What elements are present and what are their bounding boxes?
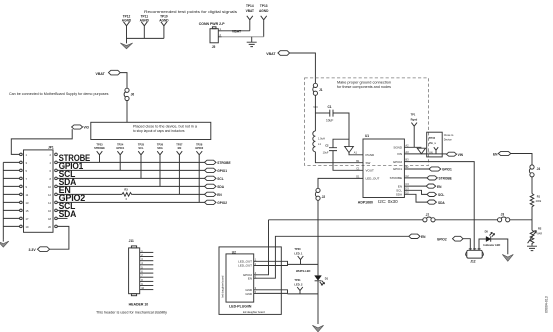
wire SCL pin xyxy=(404,190,427,194)
daughter board outline xyxy=(219,247,281,315)
resistor R3 0 xyxy=(122,188,133,201)
wire R1 to junction xyxy=(531,208,533,230)
svg-text:EN: EN xyxy=(178,146,182,150)
LED D5 indicator xyxy=(483,230,500,247)
svg-text:GPIO1: GPIO1 xyxy=(217,169,227,173)
svg-text:R3: R3 xyxy=(124,188,128,192)
svg-text:SDA: SDA xyxy=(217,185,224,189)
svg-text:EN: EN xyxy=(493,152,498,156)
svg-text:led daughter board: led daughter board xyxy=(221,275,225,297)
test point TP13 AGND xyxy=(259,4,269,37)
svg-text:B2: B2 xyxy=(405,165,409,169)
ground PGND (open triangle) A1 xyxy=(345,146,358,154)
svg-text:EN: EN xyxy=(421,235,426,239)
wire J4 to R1 xyxy=(531,177,533,194)
node GPIO1 flag xyxy=(429,167,452,172)
svg-text:C2: C2 xyxy=(325,144,329,148)
svg-text:C1: C1 xyxy=(328,105,332,109)
header J11 (mechanical) xyxy=(129,239,140,296)
svg-text:CONN PWR 2-P: CONN PWR 2-P xyxy=(199,22,226,26)
svg-text:B3: B3 xyxy=(405,158,409,162)
wire LED_OUT rail (to pot) xyxy=(269,219,423,221)
svg-text:SCL: SCL xyxy=(438,193,444,197)
svg-text:TP25: TP25 xyxy=(138,142,145,146)
svg-text:C2: C2 xyxy=(405,174,409,178)
wire C1 to PGND xyxy=(333,113,349,146)
wire GPIO2 flag to J12 xyxy=(463,239,470,251)
wire stub to ground xyxy=(251,37,253,42)
wire VIN to L1 xyxy=(314,113,316,131)
svg-text:J12: J12 xyxy=(470,259,476,263)
wire C2 top to PGND net xyxy=(333,139,349,148)
svg-text:SDA: SDA xyxy=(59,209,77,219)
ground (earth) below R2 xyxy=(527,246,537,250)
jumper J1 xyxy=(313,83,323,95)
node VIN flag xyxy=(446,152,463,157)
test point TP26 SDA xyxy=(157,142,164,186)
note close to device xyxy=(444,133,454,141)
node GPIO1 flag xyxy=(205,168,228,173)
svg-text:TP13: TP13 xyxy=(260,4,268,8)
wire VIO to JP1 pin1 xyxy=(11,129,72,154)
svg-text:B1: B1 xyxy=(356,159,360,163)
svg-text:This header is used for mechan: This header is used for mechanical stabi… xyxy=(96,311,167,315)
test point TP25 SCL xyxy=(138,142,145,178)
pin 6 xyxy=(254,275,257,279)
wire GPIO2 row (pin 14) xyxy=(57,193,204,203)
wire ground bus xyxy=(2,162,4,240)
svg-text:I2C: 0x30: I2C: 0x30 xyxy=(378,199,398,204)
wire J1 to VIN node xyxy=(313,95,317,113)
svg-text:AGND: AGND xyxy=(140,18,150,22)
svg-text:JP1: JP1 xyxy=(48,146,54,150)
test point TP14 VBAT xyxy=(246,4,254,31)
jumper J4 xyxy=(529,165,540,177)
test point TP1 Rgnd xyxy=(411,112,418,147)
wire GPIO2 pin long run xyxy=(404,162,474,251)
svg-text:09004-013: 09004-013 xyxy=(545,296,549,313)
svg-text:D5: D5 xyxy=(485,230,489,234)
wire U2 GPIO2 pin to rail xyxy=(257,220,269,275)
svg-text:J11: J11 xyxy=(129,239,134,243)
wire VIN node to C1 xyxy=(315,112,329,114)
node SDA flag xyxy=(427,200,446,205)
document number xyxy=(545,296,549,313)
node EN flag (daughter board) xyxy=(409,234,426,239)
svg-text:TP15: TP15 xyxy=(429,136,436,140)
svg-text:Can be connected to MotherBoar: Can be connected to MotherBoard Supply f… xyxy=(9,92,109,96)
pin 1 xyxy=(218,27,221,31)
ground (earth) near J5 xyxy=(247,42,257,46)
node VBAT flag (left) xyxy=(96,70,121,76)
svg-text:LED_2: LED_2 xyxy=(294,282,303,286)
node GPIO2 flag xyxy=(205,200,228,205)
svg-text:VBAT: VBAT xyxy=(266,52,276,56)
wire SCL stub (pin 16) xyxy=(57,201,75,211)
test point TP11 AGND xyxy=(140,15,150,39)
svg-text:STROBE: STROBE xyxy=(94,146,105,150)
svg-text:R1: R1 xyxy=(537,194,541,198)
svg-text:J6: J6 xyxy=(131,92,135,96)
wire VBAT net xyxy=(222,29,250,33)
wire AGND rail xyxy=(127,37,164,39)
connector U2 LED-PLUG/IN xyxy=(226,250,254,308)
jumper J7 xyxy=(423,213,435,222)
ground (arrow) bottom xyxy=(312,325,323,332)
svg-text:10uF: 10uF xyxy=(323,150,329,154)
test point TP27 EN xyxy=(176,142,183,194)
wire J6 to note box xyxy=(126,101,128,123)
svg-text:1.0uH: 1.0uH xyxy=(318,136,325,140)
svg-text:200k: 200k xyxy=(536,199,542,203)
wire STROBE row (pin 4) xyxy=(57,153,204,163)
svg-text:for these components and nodes: for these components and nodes xyxy=(337,85,391,89)
wire EN flag to J4 xyxy=(511,154,532,165)
svg-text:VIN: VIN xyxy=(397,152,402,156)
pin 2 xyxy=(218,33,221,37)
resistor R2 VAR xyxy=(528,227,543,246)
svg-text:VBAT: VBAT xyxy=(96,72,106,76)
node EN flag xyxy=(205,192,223,197)
wire EN row (pin 12) xyxy=(57,185,204,195)
header JP1 xyxy=(24,146,54,233)
jumper J3 xyxy=(498,213,510,222)
svg-text:SDA: SDA xyxy=(396,193,402,197)
node SDA flag xyxy=(205,184,225,189)
wire GPIO1 pin xyxy=(404,168,429,170)
wire J7 to J3 xyxy=(435,219,497,221)
svg-text:Rgnd: Rgnd xyxy=(411,118,418,122)
LED D1 WHITE-LED xyxy=(296,269,329,285)
wire PGND triangle to U1 PGND pin xyxy=(349,153,363,155)
note: motherboard supply xyxy=(9,92,109,96)
wire SGND pin xyxy=(404,146,421,148)
svg-text:LED_OUT: LED_OUT xyxy=(366,177,380,181)
svg-text:Vin_s: Vin_s xyxy=(429,141,436,145)
test point TP28 GPIO2 xyxy=(195,142,203,202)
wire EN flag to U2 EN pin xyxy=(257,236,409,278)
node EN flag (right) xyxy=(493,151,511,156)
capacitor C2 10uF xyxy=(323,144,337,155)
svg-text:AGND: AGND xyxy=(159,18,169,22)
svg-text:VOUT: VOUT xyxy=(366,169,375,173)
pin 1 xyxy=(254,258,257,262)
wire L1 to SW pin xyxy=(315,152,363,163)
svg-text:GPIO1: GPIO1 xyxy=(393,167,403,171)
svg-text:VBAT: VBAT xyxy=(246,9,254,13)
svg-text:to stop layout of caps and ind: to stop layout of caps and inductors xyxy=(133,129,185,133)
svg-text:WHITE-LED: WHITE-LED xyxy=(296,269,311,273)
node SCL flag xyxy=(205,176,224,181)
note box: placed close to the device xyxy=(91,122,211,139)
JP1 pin circles and numbers xyxy=(20,153,58,229)
wire SDA stub (pin 18) xyxy=(57,209,76,219)
svg-text:10uF: 10uF xyxy=(326,118,333,122)
svg-text:C1: C1 xyxy=(356,166,360,170)
svg-text:J2: J2 xyxy=(322,195,326,199)
svg-text:J4: J4 xyxy=(537,167,541,171)
svg-text:AGND: AGND xyxy=(122,18,132,22)
note: recommended test points xyxy=(144,10,237,14)
test point TP31 LED_2 xyxy=(294,278,303,294)
svg-text:SDA: SDA xyxy=(438,201,445,205)
test point TP10 AGND xyxy=(159,15,169,39)
node STROBE flag xyxy=(427,176,452,181)
node GPIO2 flag (J12) xyxy=(437,236,463,241)
svg-text:GPIO2: GPIO2 xyxy=(195,146,203,150)
wire VBAT to J1 xyxy=(290,53,316,83)
svg-text:J3: J3 xyxy=(501,213,505,217)
svg-text:SCL: SCL xyxy=(217,177,223,181)
svg-text:LED-PLUG/IN: LED-PLUG/IN xyxy=(229,305,252,309)
svg-text:J1: J1 xyxy=(319,88,323,92)
jumper J2 xyxy=(315,188,325,200)
svg-text:D1: D1 xyxy=(356,175,360,179)
pin 2 xyxy=(254,262,257,266)
svg-text:GPIO1: GPIO1 xyxy=(442,168,452,172)
svg-text:STROBE: STROBE xyxy=(217,161,230,165)
wire SCL row (pin 8) xyxy=(57,169,204,179)
wire LED_OUT pin to J2 xyxy=(318,178,363,188)
svg-text:SGND: SGND xyxy=(393,146,403,150)
svg-text:R2: R2 xyxy=(538,227,542,231)
svg-text:C3: C3 xyxy=(405,182,409,186)
pin 3 xyxy=(254,286,257,290)
wire VBAT to J6 xyxy=(120,73,127,89)
svg-text:TP27: TP27 xyxy=(176,142,183,146)
ground AGND (arrow) xyxy=(120,43,132,49)
svg-text:VIN: VIN xyxy=(458,153,464,157)
svg-text:Recommended test points for di: Recommended test points for digital sign… xyxy=(144,10,237,14)
node EN flag xyxy=(426,184,442,189)
resistor R1 200k xyxy=(530,194,542,209)
svg-text:led daughter board: led daughter board xyxy=(243,310,265,314)
svg-text:STROBE: STROBE xyxy=(439,177,452,181)
J11 pins 1-10 xyxy=(140,249,154,290)
svg-text:VBAT: VBAT xyxy=(232,29,242,33)
svg-text:STROBE: STROBE xyxy=(390,176,402,180)
svg-text:SCL: SCL xyxy=(138,146,144,150)
wire GND pins merge xyxy=(257,290,318,294)
op-amp U1 ADP1660 xyxy=(358,134,405,205)
wire VIN pin to TP15 xyxy=(404,153,426,155)
node VBAT flag (top) xyxy=(266,51,289,56)
svg-text:GPIO2: GPIO2 xyxy=(217,201,227,205)
svg-text:A3: A3 xyxy=(405,150,409,154)
svg-text:ADP1660: ADP1660 xyxy=(358,201,373,205)
node VIO flag xyxy=(72,125,90,130)
svg-text:HEADER 10: HEADER 10 xyxy=(129,302,149,306)
svg-text:TP31: TP31 xyxy=(294,278,301,282)
svg-text:Device: Device xyxy=(444,137,452,141)
wire pin 20 to 3.3V xyxy=(50,226,69,249)
svg-text:LED_1: LED_1 xyxy=(294,251,303,255)
svg-text:SW: SW xyxy=(366,161,371,165)
ground SGND (open triangle) xyxy=(417,148,425,154)
svg-text:A1: A1 xyxy=(354,150,358,154)
wire D1 cathode to ground xyxy=(317,281,319,324)
svg-text:GPIO2: GPIO2 xyxy=(393,160,403,164)
svg-text:AGND: AGND xyxy=(259,9,269,13)
node 3.3V flag xyxy=(29,247,50,252)
wire C2 bottom to VOUT pin xyxy=(333,151,363,171)
test point TP24 GPIO1 xyxy=(116,142,124,170)
wire pin2 to AGND xyxy=(222,36,264,38)
wire D5 cathode to ground xyxy=(491,239,508,254)
test point TP30 LED_1 xyxy=(294,247,303,265)
ground (arrow) below D5 xyxy=(502,254,513,261)
svg-text:J5: J5 xyxy=(212,45,216,49)
wire GPIO1 row (pin 6) xyxy=(57,161,204,171)
svg-text:TP24: TP24 xyxy=(117,142,124,146)
svg-text:LED_OUT: LED_OUT xyxy=(238,264,252,268)
svg-text:VAR: VAR xyxy=(537,231,542,235)
svg-text:TP28: TP28 xyxy=(196,142,203,146)
svg-text:D1: D1 xyxy=(325,277,329,281)
svg-text:EN: EN xyxy=(248,277,252,281)
jumper J6 xyxy=(124,88,134,100)
svg-text:EN: EN xyxy=(437,185,442,189)
test point TP12 AGND xyxy=(122,15,132,30)
wire J2 down to LED D1 xyxy=(317,200,319,275)
svg-text:3.3V: 3.3V xyxy=(29,248,37,252)
svg-text:GND: GND xyxy=(245,292,253,296)
node STROBE flag xyxy=(205,160,231,165)
wire SDA row (pin 10) xyxy=(57,177,204,187)
svg-text:TP26: TP26 xyxy=(157,142,164,146)
wire JP1 left pins to ground bus xyxy=(3,162,19,226)
note box: make proper ground connection (dashed) xyxy=(305,78,429,166)
svg-text:Indicator LED: Indicator LED xyxy=(483,243,500,247)
svg-text:Close to: Close to xyxy=(444,133,454,137)
svg-text:A2: A2 xyxy=(405,143,409,147)
pin 4 xyxy=(254,271,257,275)
svg-text:TP23: TP23 xyxy=(96,142,103,146)
wire D5 anode to J12 xyxy=(479,239,486,250)
pin 5 xyxy=(254,290,257,294)
wire EN pin xyxy=(404,185,426,187)
ground (arrow) at bus xyxy=(0,240,9,247)
svg-text:GPIO1: GPIO1 xyxy=(116,146,124,150)
svg-text:TP1: TP1 xyxy=(411,112,416,116)
wire J3 to R1/R2 junction xyxy=(510,219,532,221)
svg-text:TP30: TP30 xyxy=(294,247,301,251)
node SCL flag xyxy=(427,192,445,197)
wire STROBE pin xyxy=(404,177,427,179)
svg-text:VIN: VIN xyxy=(313,105,317,109)
connector J5 CONN PWR 2-P xyxy=(199,22,226,49)
test point TP23 STROBE xyxy=(94,142,105,162)
wire TP12 to AGND rail xyxy=(126,30,128,43)
svg-text:GPIO2: GPIO2 xyxy=(437,238,447,242)
svg-text:PGND: PGND xyxy=(366,153,376,157)
test point TP15 Vin_s (boxed) xyxy=(427,132,443,157)
connector J12 xyxy=(466,249,484,264)
svg-text:VIO: VIO xyxy=(84,126,90,130)
wire LED_OUT pins merge xyxy=(257,261,318,265)
svg-text:SDA: SDA xyxy=(157,146,163,150)
wire TP15 to VIN flag xyxy=(442,153,446,155)
svg-text:EN: EN xyxy=(217,193,222,197)
capacitor C1 10uF xyxy=(326,105,333,123)
svg-text:U1: U1 xyxy=(365,134,369,138)
wire SDA pin xyxy=(404,194,427,202)
svg-text:TP14: TP14 xyxy=(246,4,254,8)
inductor L1 1.0uH xyxy=(313,131,325,152)
